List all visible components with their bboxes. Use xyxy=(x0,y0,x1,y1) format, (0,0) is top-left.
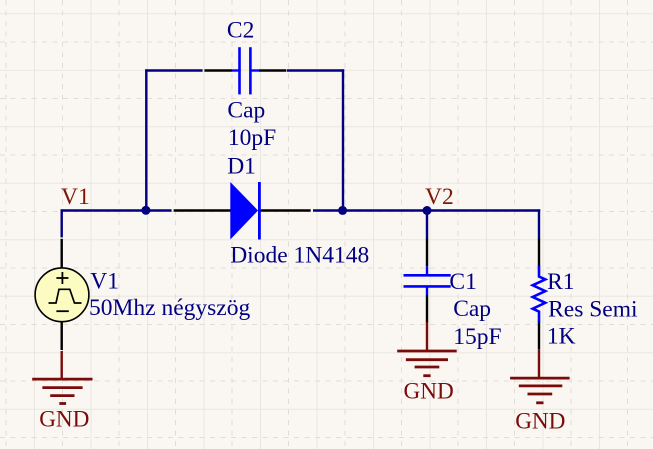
svg-text:C1: C1 xyxy=(449,269,476,295)
wire C2 top-right segment xyxy=(287,69,345,71)
svg-text:R1: R1 xyxy=(547,269,574,295)
voltage source V1 body (circle with pulse symbol) xyxy=(35,268,89,322)
GND label under R1 xyxy=(515,409,565,435)
R1 designator label xyxy=(547,269,574,295)
C2 value label 10pF xyxy=(228,125,276,151)
svg-text:GND: GND xyxy=(39,407,89,433)
ground symbol under R1 xyxy=(510,349,569,403)
resistor R1 bottom pin xyxy=(538,322,540,350)
wire net V2: vertical drop to R1 xyxy=(538,209,540,238)
D1 designator label xyxy=(227,154,256,180)
svg-text:V1: V1 xyxy=(90,268,119,294)
diode D1 body (anode triangle + cathode bar) xyxy=(230,182,259,240)
diode D1 right pin xyxy=(260,209,311,211)
svg-text:D1: D1 xyxy=(227,154,256,180)
svg-text:C2: C2 xyxy=(227,18,254,44)
ground symbol under V1 source xyxy=(32,351,92,404)
capacitor C2 left pin xyxy=(204,69,232,71)
svg-text:Cap: Cap xyxy=(227,98,265,124)
wire C2 top-left segment xyxy=(145,69,202,71)
svg-text:10pF: 10pF xyxy=(228,125,276,151)
V1 source comment label 50Mhz negyszog xyxy=(89,295,250,321)
resistor R1 body (zigzag) xyxy=(533,266,546,323)
svg-text:GND: GND xyxy=(515,409,565,435)
svg-text:Res Semi: Res Semi xyxy=(548,297,638,323)
voltage source V1 top pin xyxy=(61,239,63,269)
GND label under C1 xyxy=(404,379,454,405)
svg-text:15pF: 15pF xyxy=(453,324,501,350)
svg-text:1K: 1K xyxy=(547,324,576,350)
svg-text:V2: V2 xyxy=(425,184,454,210)
wire net V1: vertical drop to V1 source pin xyxy=(61,209,63,237)
wire net V1: vertical up-branch to C2 left xyxy=(145,69,147,211)
wire net V1: horizontal from source corner to diode anode xyxy=(61,209,172,211)
R1 comment label Res Semi xyxy=(548,297,638,323)
capacitor C1 top pin xyxy=(426,239,428,267)
R1 value label 1K xyxy=(547,324,576,350)
junction node at diode cathode / C2 right xyxy=(338,206,347,215)
D1 comment label Diode 1N4148 xyxy=(230,242,369,268)
svg-text:Diode 1N4148: Diode 1N4148 xyxy=(230,242,369,268)
capacitor C2 body xyxy=(232,47,259,94)
svg-text:V1: V1 xyxy=(61,184,90,210)
svg-text:GND: GND xyxy=(404,379,454,405)
wire net V2: horizontal from diode cathode to R1 corner xyxy=(313,209,540,211)
capacitor C2 right pin xyxy=(259,69,286,71)
V1 source designator label xyxy=(90,268,119,294)
C2 designator label xyxy=(227,18,254,44)
C1 value label 15pF xyxy=(453,324,501,350)
net label V2 xyxy=(425,184,454,210)
ground symbol under C1 xyxy=(397,322,457,376)
svg-text:Cap: Cap xyxy=(453,296,491,322)
voltage source V1 bottom pin xyxy=(61,321,63,350)
resistor R1 top pin xyxy=(538,239,540,267)
diode D1 left pin xyxy=(174,209,231,211)
capacitor C1 body xyxy=(404,266,451,295)
C1 comment label Cap xyxy=(453,296,491,322)
net label V1 xyxy=(61,184,90,210)
wire: vertical from C2 right down to diode cathode node xyxy=(342,69,344,211)
wire net V2: vertical drop to C1 xyxy=(426,209,428,238)
GND label under V1 source xyxy=(39,407,89,433)
C1 designator label xyxy=(449,269,476,295)
capacitor C1 bottom pin xyxy=(426,295,428,323)
junction node V2 (C1 branch) xyxy=(423,206,432,215)
junction node V1 (wire to C2 branch) xyxy=(141,206,150,215)
C2 comment label Cap xyxy=(227,98,265,124)
svg-text:50Mhz négyszög: 50Mhz négyszög xyxy=(89,295,250,321)
